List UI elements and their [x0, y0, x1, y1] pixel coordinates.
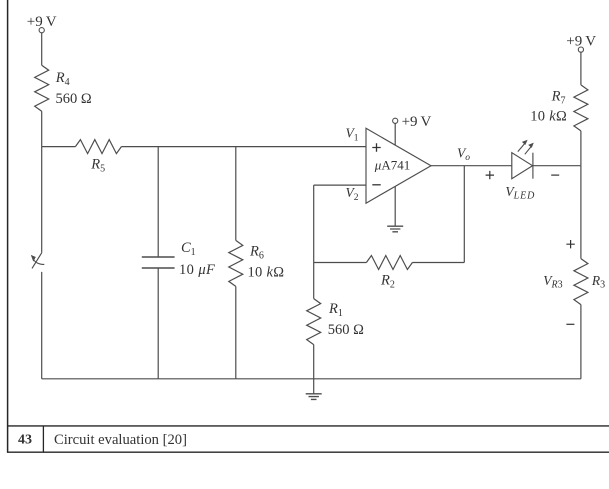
- svg-text:+9 V: +9 V: [402, 114, 432, 130]
- resistor R2: [366, 256, 412, 270]
- wire: [431, 165, 512, 167]
- wire: [42, 146, 76, 148]
- svg-text:μA741: μA741: [374, 158, 410, 173]
- wire: [394, 186, 396, 226]
- wire: [463, 166, 465, 263]
- wire: [157, 268, 159, 379]
- label + (LED anode): [486, 171, 494, 179]
- label - (LED cathode): [551, 174, 559, 176]
- wire: [41, 272, 43, 379]
- wire: [158, 378, 236, 380]
- wire: [235, 286, 237, 378]
- ground (main): [306, 394, 322, 400]
- supply +9V (op-amp): [393, 114, 432, 130]
- resistor R7: [574, 85, 588, 131]
- wire: [533, 165, 581, 167]
- op-amp U1 uA741: [366, 128, 431, 203]
- wire: [580, 166, 582, 259]
- svg-text:+9 V: +9 V: [566, 33, 596, 49]
- svg-text:10 kΩ: 10 kΩ: [248, 264, 285, 280]
- supply +9V (top left): [27, 14, 57, 33]
- wire: [235, 147, 237, 241]
- resistor R3: [574, 259, 588, 305]
- label - (R3 bottom): [566, 323, 574, 325]
- svg-text:Circuit evaluation [20]: Circuit evaluation [20]: [54, 432, 187, 448]
- wire: [313, 185, 315, 262]
- table row: 43 Circuit evaluation [20]: [18, 432, 187, 448]
- wire: [41, 147, 43, 253]
- wire: [314, 184, 366, 186]
- resistor R5: [75, 140, 121, 154]
- wire: [157, 147, 159, 257]
- svg-text:560 Ω: 560 Ω: [328, 322, 364, 338]
- wire: [580, 305, 582, 379]
- wire: [314, 262, 367, 264]
- switch: [31, 253, 45, 269]
- svg-text:+9 V: +9 V: [27, 14, 57, 30]
- wire: [313, 345, 315, 379]
- resistor R6: [229, 240, 243, 286]
- wire: [42, 378, 159, 380]
- label + (R3 top): [566, 240, 574, 248]
- svg-text:560 Ω: 560 Ω: [56, 91, 92, 107]
- wire: [313, 263, 315, 299]
- ground (op-amp): [387, 226, 403, 232]
- resistor R4: [35, 65, 49, 111]
- wire: [41, 33, 43, 65]
- diode LED: [512, 140, 534, 179]
- wire: [41, 111, 43, 146]
- wire: [236, 378, 314, 380]
- svg-text:10 μF: 10 μF: [179, 262, 215, 278]
- capacitor C1: [142, 257, 175, 268]
- resistor R1: [307, 299, 321, 345]
- supply +9V (top right): [566, 33, 596, 52]
- wire: [394, 123, 396, 145]
- wire: [580, 52, 582, 85]
- wire: [313, 379, 315, 394]
- wire: [314, 378, 581, 380]
- wire: [580, 131, 582, 166]
- svg-text:43: 43: [18, 432, 32, 447]
- wire: [412, 262, 464, 264]
- svg-text:10 kΩ: 10 kΩ: [530, 109, 567, 125]
- wire: [121, 146, 366, 148]
